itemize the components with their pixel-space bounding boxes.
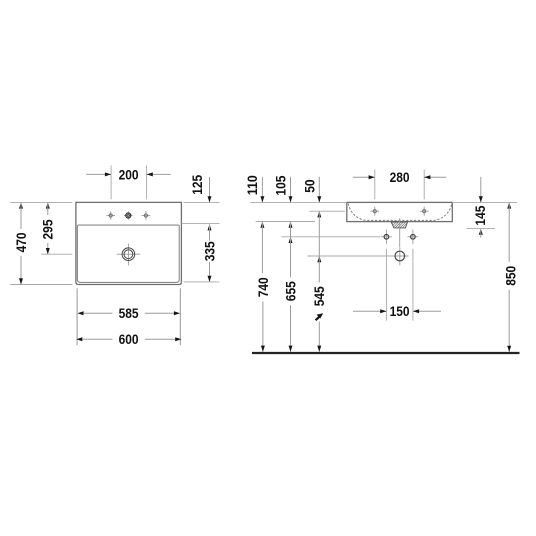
- svg-text:545: 545: [312, 286, 327, 306]
- svg-text:150: 150: [390, 304, 410, 319]
- svg-text:50: 50: [302, 179, 317, 193]
- svg-text:600: 600: [119, 332, 139, 347]
- svg-text:280: 280: [390, 170, 410, 185]
- svg-text:125: 125: [190, 175, 205, 195]
- svg-text:585: 585: [119, 306, 139, 321]
- svg-text:655: 655: [283, 281, 298, 301]
- svg-text:335: 335: [202, 241, 217, 261]
- svg-text:200: 200: [119, 167, 139, 182]
- svg-text:105: 105: [274, 175, 289, 195]
- svg-text:850: 850: [503, 266, 518, 286]
- svg-text:110: 110: [245, 175, 260, 195]
- svg-text:295: 295: [41, 219, 56, 239]
- svg-text:470: 470: [14, 232, 29, 252]
- svg-text:145: 145: [473, 205, 488, 225]
- svg-text:740: 740: [256, 277, 271, 297]
